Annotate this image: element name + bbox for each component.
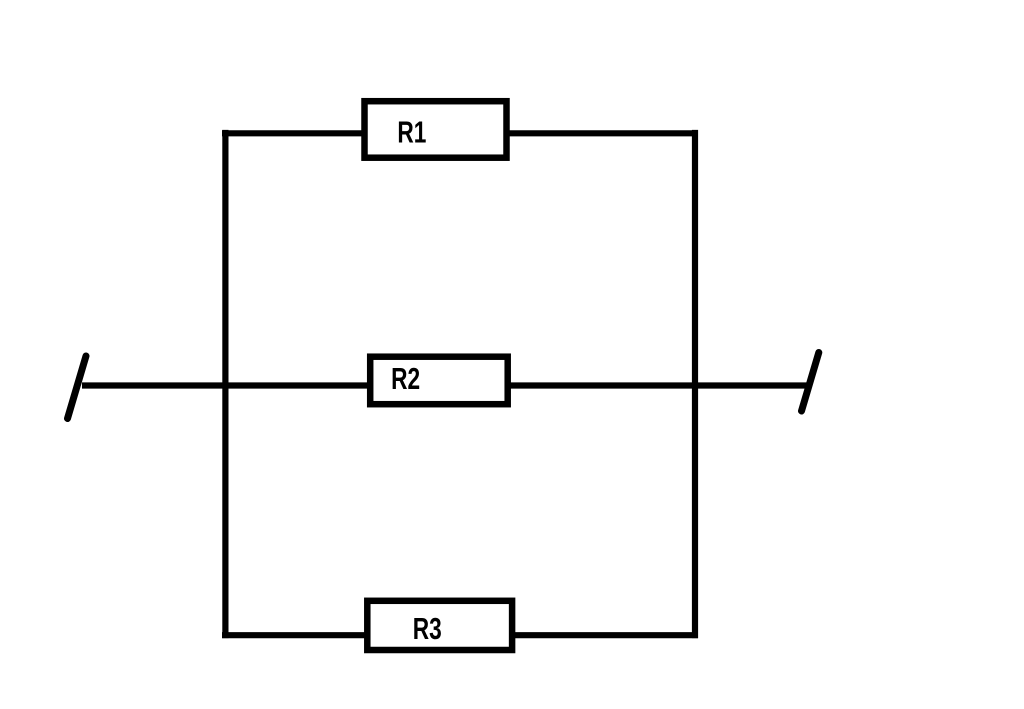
resistor R3 [367,601,512,650]
wire right vertical branch [692,130,698,638]
resistor R2 [370,357,508,405]
terminal right slash [802,353,819,412]
resistor R1 [365,101,507,158]
svg-text:R2: R2 [391,361,420,396]
svg-text:R1: R1 [397,115,426,150]
svg-text:R3: R3 [413,611,442,646]
wire top horizontal [222,130,698,136]
wire bottom horizontal [222,632,698,638]
terminal left slash [68,356,87,419]
wire left vertical branch [222,130,228,638]
wire middle horizontal [82,382,808,388]
